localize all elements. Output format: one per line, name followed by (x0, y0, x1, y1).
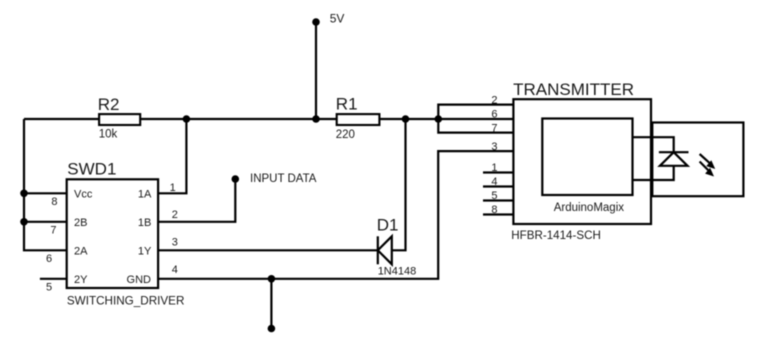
wire main rail (24, 118, 513, 120)
svg-text:D1: D1 (377, 216, 399, 235)
svg-text:3: 3 (172, 236, 178, 248)
wire transmitter pin 8 stub (483, 213, 513, 215)
svg-text:R2: R2 (98, 95, 120, 114)
ground node (268, 325, 276, 333)
svg-text:HFBR-1414-SCH: HFBR-1414-SCH (511, 229, 601, 242)
diode D1 triangle (378, 236, 392, 264)
svg-text:6: 6 (491, 109, 497, 121)
junction rail / pin 1A branch (183, 115, 191, 123)
wire GND net SWD1 to transmitter pin 3 (158, 151, 513, 279)
wire inner box to LED bottom (633, 166, 674, 180)
svg-text:ArduinoMagix: ArduinoMagix (554, 202, 625, 214)
svg-text:7: 7 (50, 225, 56, 237)
wire transmitter pin 5 stub (483, 199, 513, 201)
LED cathode bar (659, 151, 689, 153)
svg-text:1N4148: 1N4148 (378, 266, 417, 278)
svg-text:5: 5 (46, 282, 52, 294)
wire ground stub (270, 279, 272, 329)
svg-text:1A: 1A (138, 188, 152, 200)
wire left rail (24, 119, 67, 250)
svg-text:1Y: 1Y (138, 245, 152, 257)
junction rail / transmitter pins (435, 115, 443, 123)
junction rail / D1 branch (402, 115, 410, 123)
junction GND stub (268, 275, 276, 283)
svg-text:220: 220 (336, 129, 355, 141)
svg-text:7: 7 (491, 123, 497, 135)
svg-text:4: 4 (491, 176, 497, 188)
node INPUT DATA (232, 175, 240, 183)
wire transmitter pin 1 stub (483, 171, 513, 173)
wire inner box to LED top (633, 137, 674, 152)
LED emission arrow 2 (700, 162, 709, 171)
svg-text:R1: R1 (336, 95, 358, 114)
wire transmitter pin 4 stub (483, 185, 513, 187)
wire pin 1A to rail (158, 119, 186, 193)
wire D1 to rail branch (392, 119, 406, 250)
wire 5V drop (315, 22, 317, 119)
junction rail / 5V (312, 115, 320, 123)
svg-text:2: 2 (172, 209, 178, 221)
wire pin 1B to input node (158, 179, 235, 222)
svg-text:4: 4 (172, 264, 178, 276)
wire SWD1 pin 8 (24, 192, 67, 194)
svg-text:1B: 1B (138, 217, 151, 229)
svg-text:2Y: 2Y (74, 274, 88, 286)
wire SWD1 pin 5 stub (40, 278, 67, 280)
svg-text:2A: 2A (74, 245, 88, 257)
power node 5V (312, 18, 320, 26)
svg-text:TRANSMITTER: TRANSMITTER (513, 80, 634, 99)
LED box (652, 123, 743, 197)
IC TRANSMITTER outer box (513, 99, 651, 224)
LED triangle (660, 152, 688, 166)
diode D1 cathode bar (377, 236, 379, 264)
svg-text:8: 8 (491, 204, 497, 216)
junction left rail / pin 8 (20, 190, 28, 198)
wire SWD1 pin 7 (24, 221, 67, 223)
svg-text:2: 2 (491, 95, 497, 107)
svg-text:1: 1 (491, 162, 497, 174)
svg-text:SWITCHING_DRIVER: SWITCHING_DRIVER (67, 295, 185, 308)
svg-text:6: 6 (46, 253, 52, 265)
svg-text:1: 1 (170, 182, 176, 194)
svg-text:5: 5 (491, 190, 497, 202)
svg-text:INPUT DATA: INPUT DATA (250, 173, 317, 185)
svg-text:Vcc: Vcc (74, 188, 93, 200)
wire 1Y to D1 anode (158, 249, 378, 251)
svg-text:10k: 10k (99, 129, 118, 141)
svg-text:SWD1: SWD1 (67, 160, 116, 179)
svg-text:8: 8 (51, 196, 57, 208)
svg-text:5V: 5V (330, 12, 345, 26)
module inner box ArduinoMagix (542, 119, 632, 196)
svg-text:GND: GND (127, 274, 152, 286)
svg-text:3: 3 (491, 141, 497, 153)
wire transmitter pin 2 (438, 105, 513, 133)
resistor R1 (337, 114, 380, 125)
svg-text:2B: 2B (74, 217, 87, 229)
resistor R2 (99, 114, 140, 125)
IC SWD1 switching driver (67, 179, 158, 288)
junction left rail / pin 7 (20, 218, 28, 226)
LED emission arrow 1 (700, 154, 710, 163)
